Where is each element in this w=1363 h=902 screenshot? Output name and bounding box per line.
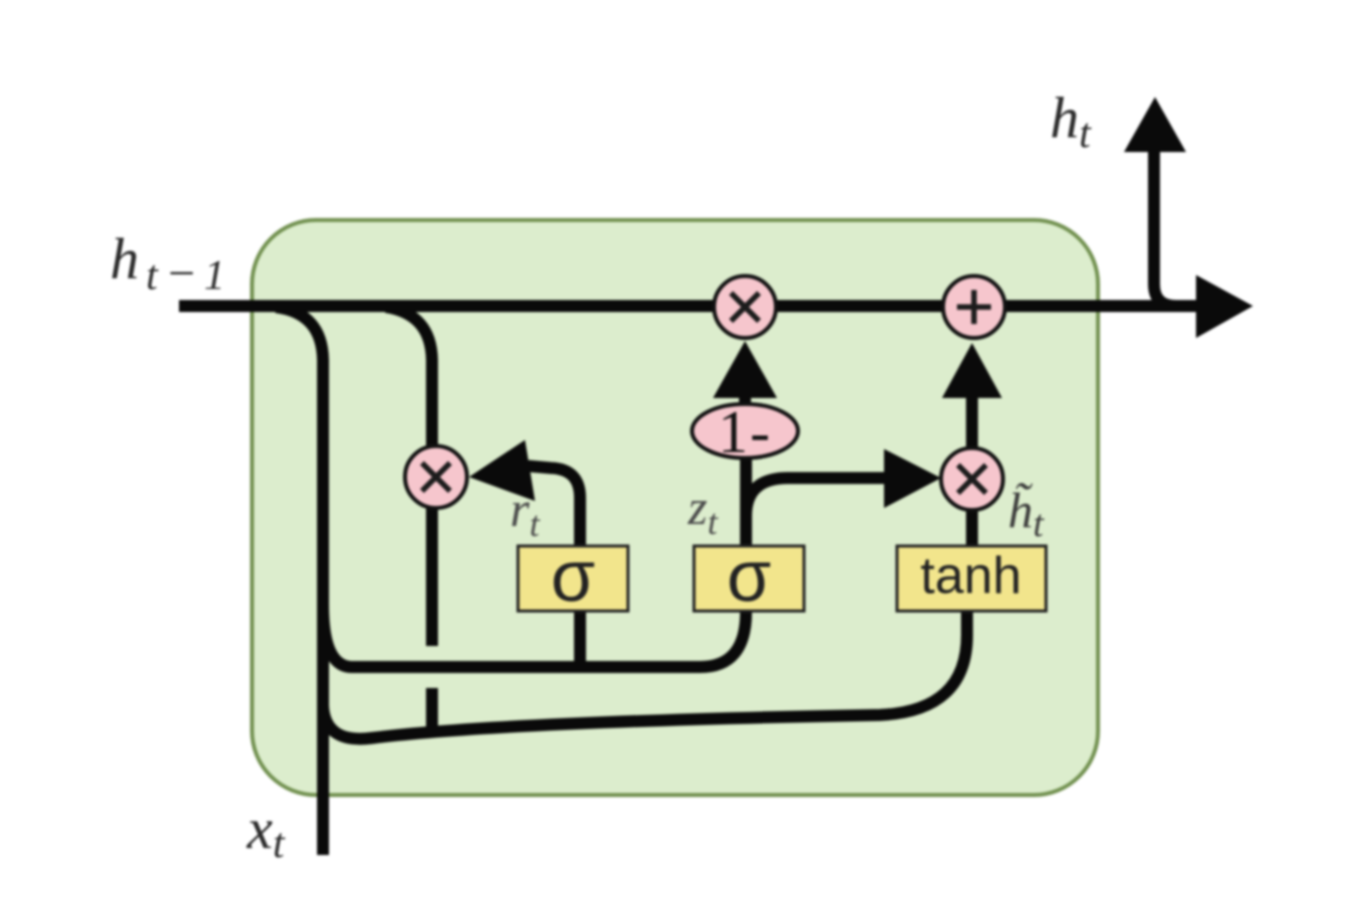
wire sigma1 bottom stub [574, 611, 586, 673]
svg-text:ht−1: ht−1 [110, 226, 225, 300]
tanh gate box [897, 546, 1046, 611]
wire arrow 1- to multiply on h-line [739, 392, 751, 412]
wire h-line main horizontal [179, 300, 1200, 312]
arrowhead z branch [884, 449, 941, 508]
GRU cell body [252, 220, 1098, 795]
svg-text:xt: xt [246, 796, 286, 867]
wire branch 2 lower segment [426, 688, 438, 732]
sigma1 gate box [518, 546, 628, 611]
arrowhead h_t up [1124, 97, 1186, 152]
multiply node on h-line [714, 276, 776, 338]
svg-text:ht: ht [1050, 85, 1092, 157]
svg-text:tanh: tanh [920, 547, 1021, 605]
wire tanh to multiply [966, 510, 978, 547]
reset multiply node [405, 446, 467, 508]
wire arrow candidate multiply to plus [966, 392, 978, 451]
wire z_t branch right to multiply [746, 478, 884, 516]
wire left branch 1 from h-line down to x_t [276, 307, 323, 855]
arrowhead r_t into multiply [469, 440, 535, 501]
wire bus1 to sigma gates [323, 604, 746, 667]
svg-text:σ: σ [727, 537, 771, 617]
sigma2 gate box [694, 546, 804, 611]
wire z_t from sigma2 to 1- [740, 459, 752, 547]
arrowhead right output [1196, 275, 1253, 338]
svg-text:1-: 1- [718, 399, 772, 465]
wire bus2 to tanh [323, 611, 967, 739]
wire h_t up branch [1154, 150, 1176, 306]
candidate multiply node [941, 448, 1003, 510]
plus node on h-line [943, 276, 1005, 338]
wire branch 2 vertical through reset multiply [386, 307, 432, 646]
1- ellipse node [692, 404, 798, 458]
wire r_t from sigma1 to reset multiply [528, 466, 580, 547]
svg-text:σ: σ [551, 537, 595, 617]
